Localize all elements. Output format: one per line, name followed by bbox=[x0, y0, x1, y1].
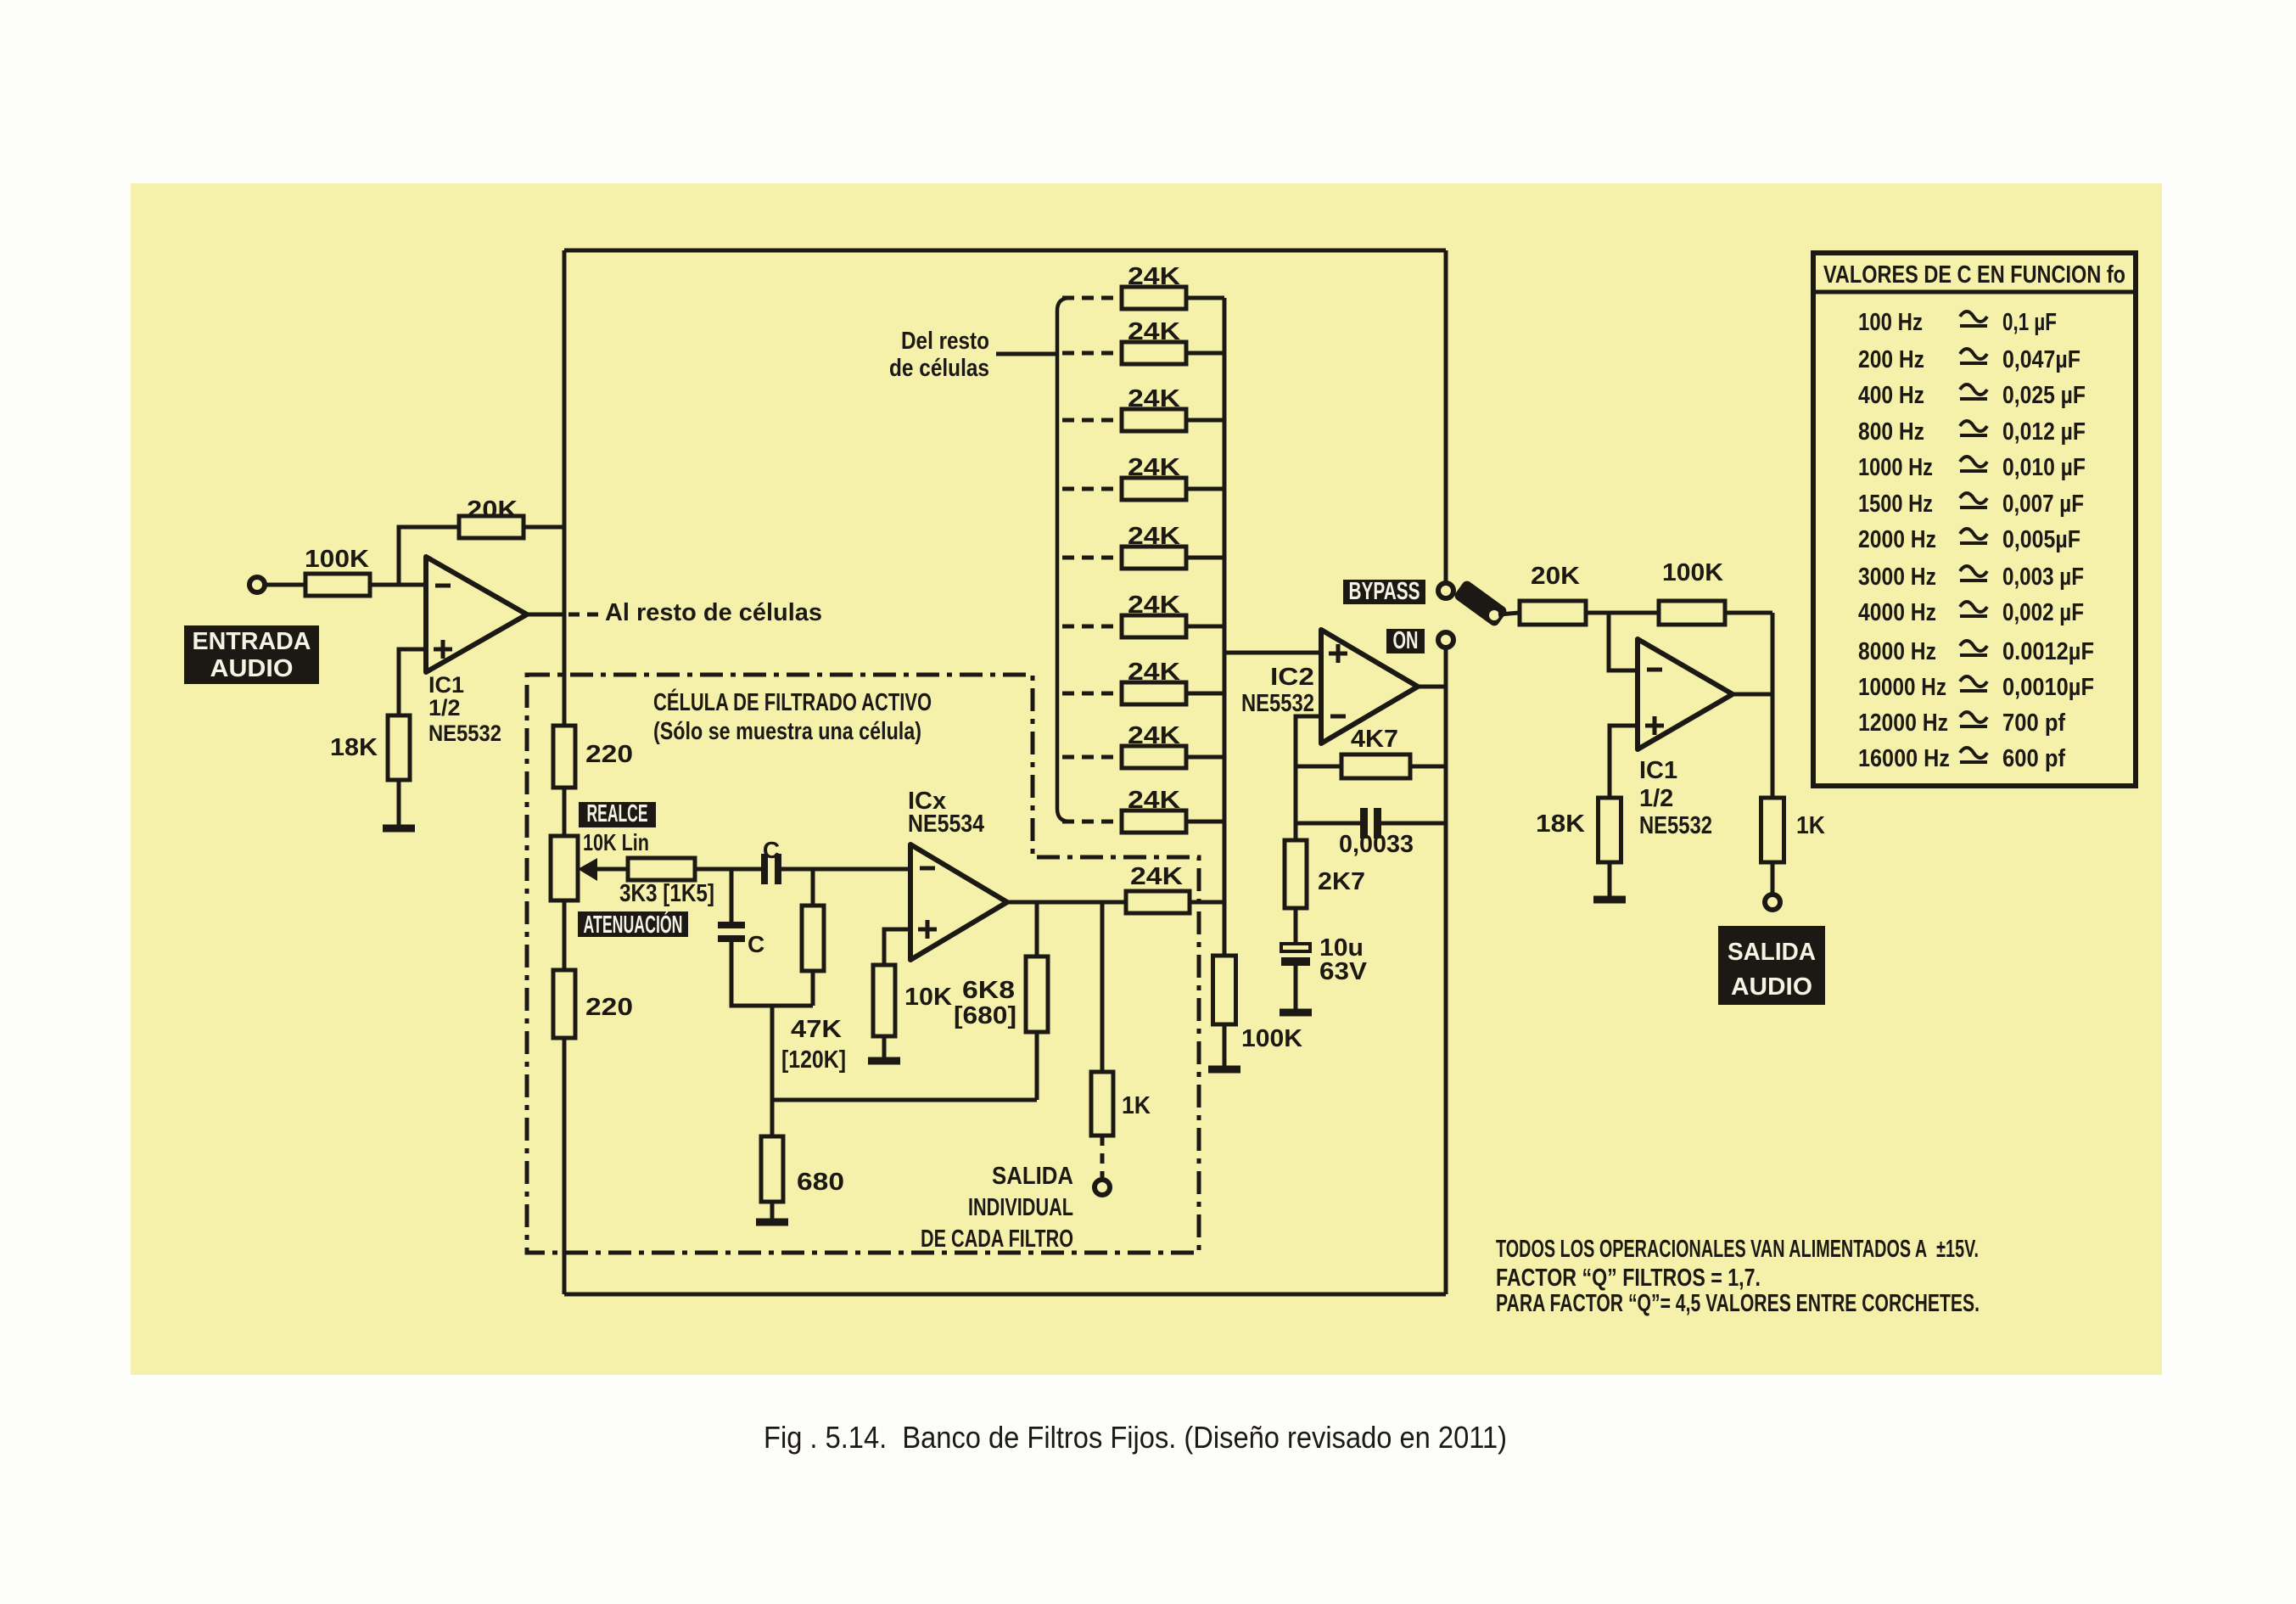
svg-text:24K: 24K bbox=[1128, 385, 1180, 412]
svg-text:NE5532: NE5532 bbox=[1241, 690, 1314, 717]
svg-text:ENTRADA: ENTRADA bbox=[193, 628, 311, 655]
table row 400 Hz bbox=[1858, 382, 2086, 409]
table VALORES DE C EN FUNCION fo bbox=[1813, 253, 2136, 786]
svg-text:800 Hz: 800 Hz bbox=[1858, 418, 1924, 446]
svg-text:220: 220 bbox=[585, 741, 633, 768]
resistor 24K #8 (bank) bbox=[1122, 746, 1186, 768]
svg-text:1K: 1K bbox=[1796, 812, 1825, 839]
resistor 24K #2 (bank) bbox=[1122, 342, 1186, 364]
svg-text:0.0012µF: 0.0012µF bbox=[2002, 638, 2094, 665]
wire dashed to bank 24K #1 bbox=[1062, 296, 1122, 300]
resistor 47K [120K] bbox=[802, 906, 824, 971]
svg-text:0,0033: 0,0033 bbox=[1339, 831, 1414, 858]
svg-text:CÉLULA DE FILTRADO ACTIVO: CÉLULA DE FILTRADO ACTIVO bbox=[653, 687, 932, 716]
resistor 18K (IC1 bias) bbox=[388, 715, 410, 780]
wire IC1 output apex to node bbox=[1733, 693, 1772, 697]
wire from other cells to bracket bbox=[996, 352, 1057, 356]
svg-text:1500 Hz: 1500 Hz bbox=[1858, 491, 1933, 518]
table row 1500 Hz bbox=[1858, 491, 2084, 518]
svg-text:0,1 µF: 0,1 µF bbox=[2002, 309, 2057, 336]
resistor 24K #6 (bank) bbox=[1122, 615, 1186, 637]
svg-text:16000 Hz: 16000 Hz bbox=[1858, 745, 1950, 772]
capacitor C (shunt) bbox=[718, 922, 745, 942]
bank bracket bbox=[1057, 298, 1070, 822]
svg-text:100K: 100K bbox=[1662, 559, 1723, 586]
wire lower 220 down to bottom bus bbox=[563, 1038, 567, 1294]
wire IC1 + input to 18K bbox=[399, 649, 426, 715]
wire dashed 1K to terminal bbox=[1100, 1136, 1105, 1180]
resistor 220 (upper) bbox=[553, 726, 575, 788]
svg-text:NE5534: NE5534 bbox=[908, 810, 984, 838]
resistor 100K (output feedback) bbox=[1659, 601, 1725, 625]
svg-text:3K3 [1K5]: 3K3 [1K5] bbox=[619, 880, 714, 907]
svg-text:24K: 24K bbox=[1128, 659, 1180, 686]
resistor 2K7 bbox=[1285, 840, 1307, 908]
wire input to 100K bbox=[265, 583, 305, 587]
svg-text:0,003 µF: 0,003 µF bbox=[2002, 564, 2084, 591]
wire cell 24K to summing bus bbox=[1190, 900, 1224, 905]
resistor 100K (summing) bbox=[1213, 956, 1236, 1024]
resistor 3K3 [1K5] bbox=[628, 858, 695, 880]
svg-text:0,025 µF: 0,025 µF bbox=[2002, 382, 2086, 409]
svg-text:0,047µF: 0,047µF bbox=[2002, 346, 2080, 373]
wire 20K to 100K bbox=[1586, 611, 1659, 615]
svg-text:1/2: 1/2 bbox=[428, 695, 461, 721]
wire IC2 - input down bbox=[1296, 716, 1321, 840]
svg-text:AUDIO: AUDIO bbox=[1731, 973, 1812, 1001]
wire bank 24K #3 to bus bbox=[1186, 418, 1224, 423]
svg-text:220: 220 bbox=[585, 994, 633, 1021]
ground (18K) bbox=[383, 825, 415, 833]
resistor 1K (individual output) bbox=[1091, 1072, 1113, 1136]
wire 680 to ground bbox=[770, 1202, 775, 1219]
wire bank 24K #8 to bus bbox=[1186, 755, 1224, 760]
table row 1000 Hz bbox=[1858, 454, 2086, 481]
resistor 10K (ICx bias) bbox=[873, 965, 895, 1036]
wire bank 24K #2 to bus bbox=[1186, 351, 1224, 356]
svg-text:Del resto: Del resto bbox=[901, 328, 989, 355]
wire bottom feedback bus bbox=[564, 1293, 1446, 1297]
svg-text:200 Hz: 200 Hz bbox=[1858, 346, 1924, 373]
wire bank 24K #7 to bus bbox=[1186, 692, 1224, 696]
wire to 0,0033 capacitor bbox=[1296, 822, 1360, 826]
wire 0,0033 to output bus bbox=[1381, 822, 1446, 826]
svg-text:ON: ON bbox=[1393, 627, 1419, 654]
wire output down to 1K bbox=[1100, 902, 1105, 1072]
ground (18K output) bbox=[1593, 896, 1626, 904]
svg-text:20K: 20K bbox=[1531, 563, 1580, 590]
wire 20K to bus bbox=[524, 525, 564, 530]
wire 220 to potentiometer bbox=[563, 788, 567, 837]
wire 6K8 to feedback return bbox=[1035, 1032, 1039, 1100]
wire to IC1 output - input bbox=[1609, 613, 1638, 670]
ground (100K) bbox=[1208, 1066, 1240, 1074]
wire bank 24K #1 to bus bbox=[1186, 296, 1224, 300]
wire bank 24K #6 to bus bbox=[1186, 625, 1224, 629]
table row 3000 Hz bbox=[1858, 564, 2084, 591]
potentiometer 10K Lin body bbox=[551, 836, 578, 900]
capacitor C (series) bbox=[761, 854, 781, 884]
svg-text:(Sólo se muestra una célula): (Sólo se muestra una célula) bbox=[653, 718, 921, 745]
svg-text:NE5532: NE5532 bbox=[1639, 812, 1712, 839]
table row 4000 Hz bbox=[1858, 599, 2084, 626]
svg-text:0,005µF: 0,005µF bbox=[2002, 526, 2080, 553]
wire pot to lower 220 bbox=[563, 900, 567, 970]
svg-text:SALIDA: SALIDA bbox=[992, 1163, 1073, 1190]
svg-text:0,007 µF: 0,007 µF bbox=[2002, 491, 2084, 518]
svg-text:47K: 47K bbox=[791, 1016, 842, 1043]
wire summing bus vertical bbox=[1223, 298, 1227, 956]
wire summing bus to IC2 + input bbox=[1224, 651, 1321, 655]
svg-text:IC1: IC1 bbox=[1639, 757, 1677, 784]
label BYPASS bbox=[1343, 578, 1425, 605]
svg-text:3000 Hz: 3000 Hz bbox=[1858, 564, 1936, 591]
label ATENUACION bbox=[578, 910, 688, 939]
terminal SALIDA AUDIO output bbox=[1765, 895, 1780, 910]
wire bypass vertical bbox=[1444, 250, 1448, 583]
wire ICx + input to 10K bbox=[884, 929, 910, 965]
svg-text:4K7: 4K7 bbox=[1351, 726, 1398, 753]
capacitor 10u 63V electrolytic bbox=[1281, 944, 1310, 966]
op-amp IC1 1/2 NE5532 (output) bbox=[1638, 639, 1733, 749]
svg-text:700 pf: 700 pf bbox=[2002, 709, 2065, 737]
potentiometer wiper arrow bbox=[578, 858, 628, 881]
table row 10000 Hz bbox=[1858, 674, 2094, 701]
wire 1K to output terminal bbox=[1771, 862, 1775, 895]
wire feedback return to 6K8 bbox=[772, 1098, 1037, 1102]
wire 10u to ground bbox=[1294, 966, 1298, 1009]
op-amp IC2 NE5532 bbox=[1321, 630, 1418, 743]
wire ICx output bbox=[1007, 900, 1126, 905]
svg-text:TODOS LOS OPERACIONALES VAN AL: TODOS LOS OPERACIONALES VAN ALIMENTADOS … bbox=[1496, 1236, 1979, 1263]
terminal BYPASS contact bbox=[1438, 583, 1453, 598]
wire IC1 + input to 18K bbox=[1610, 726, 1638, 798]
svg-text:2000 Hz: 2000 Hz bbox=[1858, 526, 1936, 553]
resistor 100K (input) bbox=[305, 546, 370, 596]
resistor 680 bbox=[761, 1136, 783, 1202]
svg-text:1K: 1K bbox=[1122, 1092, 1151, 1119]
wire 4K7 to output bus bbox=[1410, 765, 1446, 769]
svg-text:24K: 24K bbox=[1130, 863, 1183, 890]
resistor 220 (lower) bbox=[553, 970, 575, 1038]
svg-text:100 Hz: 100 Hz bbox=[1858, 309, 1923, 336]
schematic yellow paper bbox=[131, 183, 2162, 1375]
resistor 4K7 (IC2 feedback) bbox=[1341, 754, 1410, 778]
resistor 24K #3 (bank) bbox=[1122, 409, 1186, 431]
op-amp IC1 1/2 NE5532 (input) bbox=[426, 557, 527, 672]
wire 100K to IC1 inverting input bbox=[370, 583, 426, 587]
svg-text:2K7: 2K7 bbox=[1318, 868, 1365, 895]
svg-text:12000 Hz: 12000 Hz bbox=[1858, 709, 1948, 737]
table row 100 Hz bbox=[1858, 309, 2057, 336]
svg-text:24K: 24K bbox=[1128, 722, 1180, 749]
svg-text:Al resto de células: Al resto de células bbox=[605, 599, 822, 626]
wire dashed to bank 24K #8 bbox=[1062, 755, 1122, 760]
svg-text:0,010 µF: 0,010 µF bbox=[2002, 454, 2086, 481]
svg-text:18K: 18K bbox=[1536, 810, 1585, 838]
svg-text:8000 Hz: 8000 Hz bbox=[1858, 638, 1936, 665]
wire IC2 output to switch bus bbox=[1418, 685, 1446, 689]
wire lever to 20K bbox=[1498, 613, 1520, 614]
wire 10K to ground bbox=[882, 1036, 887, 1057]
wire dashed to bank 24K #6 bbox=[1062, 625, 1122, 629]
resistor 24K #4 (bank) bbox=[1122, 478, 1186, 500]
svg-text:de células: de células bbox=[889, 355, 989, 382]
svg-text:ATENUACIÓN: ATENUACIÓN bbox=[584, 910, 683, 939]
terminal SALIDA INDIVIDUAL bbox=[1095, 1180, 1110, 1195]
wire dashed to bank 24K #7 bbox=[1062, 692, 1122, 696]
wire junction down to 47K bbox=[811, 869, 815, 906]
svg-text:4000 Hz: 4000 Hz bbox=[1858, 599, 1936, 626]
svg-text:NE5532: NE5532 bbox=[428, 721, 501, 746]
svg-text:24K: 24K bbox=[1128, 318, 1180, 345]
svg-text:Fig . 5.14. Banco de Filtros: Fig . 5.14. Banco de Filtros Fijos. (Dis… bbox=[764, 1420, 1507, 1455]
wire output down to 6K8 bbox=[1035, 902, 1039, 956]
svg-text:FACTOR “Q” FILTROS = 1,7.: FACTOR “Q” FILTROS = 1,7. bbox=[1496, 1265, 1761, 1292]
wire bank 24K #5 to bus bbox=[1186, 556, 1224, 560]
wire bank 24K #4 to bus bbox=[1186, 487, 1224, 491]
svg-text:680: 680 bbox=[797, 1169, 844, 1196]
terminal ENTRADA AUDIO input bbox=[249, 577, 265, 592]
op-amp ICx NE5534 bbox=[910, 844, 1007, 960]
svg-text:100K: 100K bbox=[1241, 1025, 1302, 1052]
svg-text:63V: 63V bbox=[1319, 958, 1368, 985]
svg-text:INDIVIDUAL: INDIVIDUAL bbox=[968, 1194, 1073, 1221]
svg-text:[120K]: [120K] bbox=[781, 1046, 846, 1074]
wire series C to ICx inverting input bbox=[781, 867, 910, 872]
label ON bbox=[1386, 627, 1425, 654]
svg-text:C: C bbox=[763, 837, 780, 863]
svg-text:AUDIO: AUDIO bbox=[210, 655, 294, 682]
wire to 4K7 bbox=[1296, 765, 1341, 769]
resistor 18K (output bias) bbox=[1599, 798, 1621, 862]
svg-text:24K: 24K bbox=[1128, 523, 1180, 550]
wire dashed to bank 24K #4 bbox=[1062, 487, 1122, 491]
svg-text:0,002 µF: 0,002 µF bbox=[2002, 599, 2084, 626]
wire dashed to bank 24K #9 bbox=[1062, 820, 1122, 824]
table row 8000 Hz bbox=[1858, 638, 2094, 665]
ground (10K) bbox=[868, 1057, 900, 1065]
resistor 24K #9 (bank) bbox=[1122, 810, 1186, 833]
wire shunt C bottom to 47K bottom bbox=[731, 942, 813, 1006]
wire bottom bus up to IC2 output bbox=[1444, 648, 1448, 1294]
label REALCE bbox=[579, 800, 656, 827]
resistor 6K8 [680] bbox=[1026, 956, 1048, 1032]
table row 200 Hz bbox=[1858, 346, 2080, 373]
svg-text:PARA FACTOR “Q”= 4,5 VALORES E: PARA FACTOR “Q”= 4,5 VALORES ENTRE CORCH… bbox=[1496, 1290, 1980, 1317]
resistor 20K (IC1 feedback) bbox=[459, 496, 524, 538]
resistor 24K (cell output) bbox=[1126, 891, 1190, 913]
wire 100K to ground bbox=[1223, 1024, 1227, 1066]
wire 47K to bottom node bbox=[811, 971, 815, 1006]
resistor 1K (output) bbox=[1761, 798, 1784, 862]
wire feedback up to 20K bbox=[399, 527, 459, 585]
wire 3K3 to series C, node A bbox=[695, 867, 761, 872]
svg-text:[680]: [680] bbox=[954, 1002, 1016, 1029]
svg-text:DE CADA FILTRO: DE CADA FILTRO bbox=[921, 1225, 1073, 1253]
svg-text:10K: 10K bbox=[904, 984, 952, 1011]
filter cell dash-dot border bbox=[527, 675, 1199, 1253]
svg-text:C: C bbox=[748, 931, 764, 957]
svg-text:18K: 18K bbox=[330, 734, 378, 761]
wire dashed to bank 24K #3 bbox=[1062, 418, 1122, 423]
wire top bus (IC1 out to bypass) bbox=[564, 249, 1446, 253]
resistor 24K #5 (bank) bbox=[1122, 547, 1186, 569]
wire dashed to rest of cells bbox=[568, 613, 601, 617]
ground (680) bbox=[756, 1219, 788, 1226]
wire node A down to shunt C bbox=[730, 869, 734, 922]
wire 2K7 to 10u bbox=[1294, 908, 1298, 944]
svg-text:24K: 24K bbox=[1128, 787, 1180, 814]
svg-text:600 pf: 600 pf bbox=[2002, 745, 2065, 772]
table row 16000 Hz bbox=[1858, 745, 2065, 772]
svg-text:IC1: IC1 bbox=[428, 672, 464, 698]
svg-text:10000 Hz: 10000 Hz bbox=[1858, 674, 1946, 701]
table row 800 Hz bbox=[1858, 418, 2086, 446]
wire 18K to ground bbox=[1608, 862, 1612, 896]
wire dashed to bank 24K #2 bbox=[1062, 351, 1122, 356]
svg-text:24K: 24K bbox=[1128, 454, 1180, 481]
wire 100K to output node bbox=[1725, 611, 1772, 615]
svg-text:VALORES DE C EN FUNCION fo: VALORES DE C EN FUNCION fo bbox=[1823, 261, 2125, 289]
svg-text:24K: 24K bbox=[1128, 592, 1180, 619]
switch lever bbox=[1453, 579, 1508, 627]
table row 12000 Hz bbox=[1858, 709, 2065, 737]
svg-text:24K: 24K bbox=[1128, 263, 1180, 290]
resistor 24K #7 (bank) bbox=[1122, 682, 1186, 704]
svg-text:6K8: 6K8 bbox=[962, 977, 1015, 1004]
svg-text:REALCE: REALCE bbox=[587, 800, 648, 827]
svg-text:BYPASS: BYPASS bbox=[1349, 578, 1420, 605]
wire left bus vertical bbox=[563, 250, 567, 726]
svg-text:0,0010µF: 0,0010µF bbox=[2002, 674, 2094, 701]
svg-text:IC2: IC2 bbox=[1270, 664, 1314, 691]
svg-text:20K: 20K bbox=[467, 496, 518, 524]
wire T node down to 680 bbox=[770, 1006, 775, 1136]
svg-text:1000 Hz: 1000 Hz bbox=[1858, 454, 1933, 481]
terminal ON contact bbox=[1438, 632, 1453, 648]
ground (10u) bbox=[1280, 1009, 1312, 1017]
wire 18K to ground bbox=[397, 780, 401, 825]
wire IC1 output to bus bbox=[527, 613, 564, 617]
wire bank 24K #9 to bus bbox=[1186, 820, 1224, 824]
label SALIDA AUDIO bbox=[1718, 926, 1825, 1005]
capacitor 0,0033 bbox=[1360, 808, 1381, 838]
resistor 24K #1 (bank) bbox=[1122, 287, 1186, 309]
svg-text:10K Lin: 10K Lin bbox=[583, 829, 649, 855]
resistor 20K (output) bbox=[1520, 601, 1586, 625]
svg-text:1/2: 1/2 bbox=[1639, 785, 1673, 812]
table row 2000 Hz bbox=[1858, 526, 2080, 553]
label ENTRADA AUDIO bbox=[184, 625, 319, 684]
svg-text:SALIDA: SALIDA bbox=[1728, 939, 1816, 966]
svg-text:100K: 100K bbox=[305, 546, 369, 573]
svg-text:400 Hz: 400 Hz bbox=[1858, 382, 1924, 409]
svg-text:0,012 µF: 0,012 µF bbox=[2002, 418, 2086, 446]
wire dashed to bank 24K #5 bbox=[1062, 556, 1122, 560]
wire output node down to 1K bbox=[1771, 613, 1775, 798]
